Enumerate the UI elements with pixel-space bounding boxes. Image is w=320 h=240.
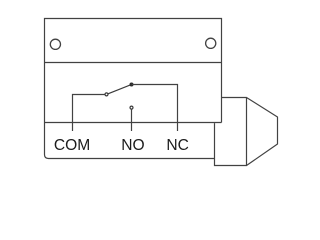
mounting hole right	[206, 38, 216, 48]
NO contact (open circle)	[130, 106, 133, 109]
switch arm	[108, 85, 130, 94]
plunger neck top edge	[222, 97, 247, 99]
svg-text:NO: NO	[121, 137, 144, 154]
pivot contact (open circle)	[105, 93, 108, 96]
svg-text:NC: NC	[166, 137, 189, 154]
switch body outline	[45, 19, 222, 159]
mounting hole left	[50, 39, 60, 49]
plunger base (left and bottom edges)	[215, 123, 247, 165]
wire NO	[131, 109, 133, 131]
node NC contact (filled dot)	[130, 83, 134, 87]
top plate divider line	[45, 62, 222, 64]
wire NC	[132, 85, 178, 132]
wire COM riser	[73, 95, 106, 132]
svg-text:COM: COM	[54, 137, 90, 154]
plunger tip (bullet)	[247, 98, 278, 166]
terminal strip divider line	[45, 122, 222, 124]
